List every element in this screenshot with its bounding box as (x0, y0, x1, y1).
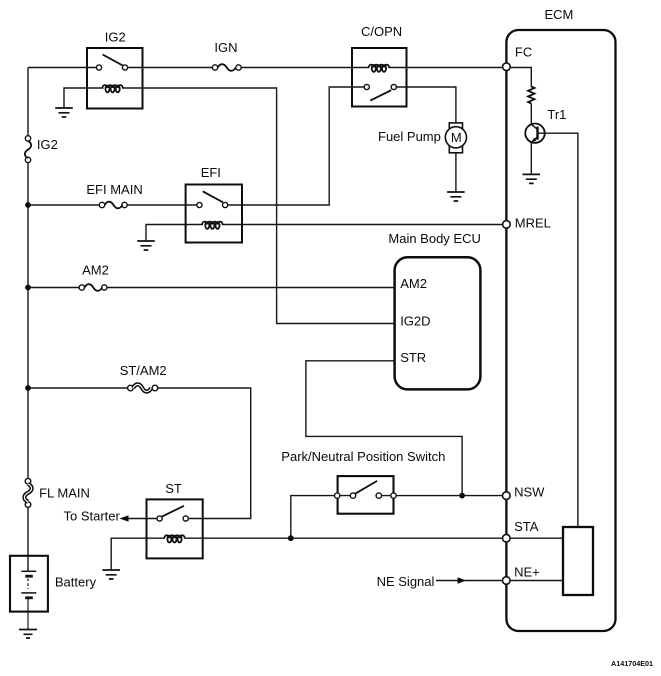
svg-text:IG2D: IG2D (400, 314, 430, 329)
svg-text:Fuel Pump: Fuel Pump (378, 129, 441, 144)
relay IG2 box (87, 48, 143, 109)
svg-text:Park/Neutral Position Switch: Park/Neutral Position Switch (281, 449, 445, 464)
wire Park/Neutral inner contact links (337, 495, 393, 497)
wire STA pin to internal block (506, 537, 563, 539)
wire AM2 line from bus to fuse (28, 287, 82, 289)
wire AM2 fuse to Main Body ECU AM2 pin (104, 287, 394, 289)
relay EFI box (186, 185, 242, 243)
wire FC pin to resistor (506, 68, 531, 87)
wire EFI coil to ground stem (146, 225, 203, 242)
svg-text:ECM: ECM (545, 7, 574, 22)
wire EFI MAIN line from bus to fuse (28, 204, 102, 206)
wire STR pin to Park/Neutral switch line (306, 361, 462, 496)
svg-text:Main Body ECU: Main Body ECU (388, 231, 480, 246)
fuse AM2 (79, 284, 107, 291)
wire Tr1 emitter to ground (530, 142, 532, 175)
node NSW line / STR branch (459, 493, 465, 499)
wire Park/Neutral switch to NSW pin (394, 495, 507, 497)
fusible link ST/AM2 (128, 384, 158, 391)
svg-text:C/OPN: C/OPN (361, 24, 402, 39)
fuse EFI MAIN (99, 202, 127, 209)
fuel pump motor (445, 123, 466, 153)
resistor (ECM internal, below FC) (528, 87, 534, 104)
svg-text:IG2: IG2 (105, 29, 126, 44)
relay ST switch contacts (157, 516, 188, 521)
wire C/OPN coil to FC pin (388, 67, 506, 69)
svg-text:EFI MAIN: EFI MAIN (86, 182, 142, 197)
pin NE+ (503, 577, 511, 585)
relay IG2 coil (102, 85, 122, 92)
wire ST/AM2 line from bus to fusible link (28, 387, 130, 389)
ground ST relay (102, 570, 120, 579)
wire ST/AM2 link to ST relay switch (155, 388, 251, 519)
ground EFI relay (137, 241, 155, 250)
fuse IG2 (vertical on bus) (25, 136, 31, 163)
svg-text:STA: STA (514, 519, 539, 534)
wire NE Signal to NE+ pin (436, 580, 506, 582)
relay C/OPN switch contacts (364, 84, 396, 89)
wire IG2 switch to IGN fuse (125, 67, 215, 69)
ECM box (506, 30, 615, 631)
wire Park/Neutral switch left terminal to STA line (291, 496, 337, 539)
relay IG2 switch contacts (96, 65, 127, 70)
switch Park/Neutral contacts (335, 493, 397, 498)
wire left battery bus (x=28) (27, 68, 29, 572)
relay EFI switch contacts (197, 202, 228, 207)
svg-text:To Starter: To Starter (64, 509, 121, 524)
pin STA (503, 534, 511, 542)
Main Body ECU box (395, 257, 481, 389)
svg-text:FL MAIN: FL MAIN (39, 486, 90, 501)
wire IG2 coil to ground stem (64, 88, 104, 108)
switch Park/Neutral Position box (338, 476, 394, 514)
wire STA line from ST coil to STA pin (185, 537, 507, 539)
ground fuel pump (447, 192, 465, 201)
relay IG2 switch blade (103, 55, 123, 66)
svg-text:M: M (451, 130, 462, 145)
fuse IGN (212, 64, 241, 71)
relay EFI switch blade (203, 191, 223, 202)
relay ST box (147, 499, 203, 558)
ground battery (19, 630, 37, 639)
svg-text:FC: FC (515, 44, 532, 59)
fusible link FL MAIN (vertical on bus) (24, 478, 31, 507)
ground IG2 relay (55, 108, 73, 117)
wire resistor to Tr1 collector (530, 104, 532, 125)
svg-text:Tr1: Tr1 (547, 107, 566, 122)
wire IG2 switch feed from bus (28, 67, 99, 69)
svg-text:AM2: AM2 (82, 263, 109, 278)
pin FC (503, 63, 511, 71)
relay ST coil (164, 535, 184, 542)
node bus/ST-AM2 junction (25, 385, 31, 391)
battery (10, 556, 48, 630)
pin NSW (503, 492, 511, 500)
wire NE+ pin to internal block (506, 580, 563, 582)
svg-text:A141704E01: A141704E01 (611, 659, 653, 668)
pin MREL (503, 221, 511, 229)
svg-text:EFI: EFI (201, 165, 221, 180)
wire fuel pump to ground (455, 153, 457, 192)
svg-text:IG2: IG2 (37, 137, 58, 152)
svg-text:NE Signal: NE Signal (377, 574, 435, 589)
wire EFI MAIN fuse to EFI switch (125, 204, 200, 206)
svg-text:ST/AM2: ST/AM2 (120, 363, 167, 378)
relay ST switch blade (162, 506, 184, 517)
svg-text:NSW: NSW (514, 485, 545, 500)
node bus/AM2 junction (25, 285, 31, 291)
relay EFI coil (202, 222, 222, 229)
wire ST coil to ground stem (111, 538, 165, 570)
wire Tr1 base to internal block (538, 133, 578, 527)
switch Park/Neutral blade (355, 481, 377, 494)
wire EFI coil to MREL pin (222, 224, 507, 226)
svg-text:AM2: AM2 (400, 276, 427, 291)
svg-text:MREL: MREL (515, 216, 551, 231)
relay C/OPN coil (369, 65, 389, 72)
wire EFI switch to C/OPN switch (225, 87, 367, 205)
svg-text:IGN: IGN (214, 40, 237, 55)
wire IG2 coil to IG2D pin of Main Body ECU (122, 88, 395, 324)
svg-text:STR: STR (400, 350, 426, 365)
relay C/OPN box (352, 48, 407, 107)
ECM internal block (563, 527, 593, 595)
ground Tr1 emitter (523, 174, 541, 183)
node bus/EFI MAIN junction (25, 202, 31, 208)
node STA line / Park-Neutral branch (288, 535, 294, 541)
svg-text:Battery: Battery (55, 575, 97, 590)
arrow To Starter (120, 515, 129, 521)
relay C/OPN switch blade (370, 90, 391, 100)
svg-text:NE+: NE+ (514, 565, 540, 580)
arrow NE Signal (458, 577, 467, 583)
wire ST switch to To Starter arrow (127, 518, 160, 520)
wire C/OPN switch to fuel pump (394, 87, 456, 123)
svg-text:ST: ST (165, 481, 182, 496)
transistor Tr1 (525, 124, 544, 143)
wire IGN fuse to C/OPN coil (239, 67, 370, 69)
